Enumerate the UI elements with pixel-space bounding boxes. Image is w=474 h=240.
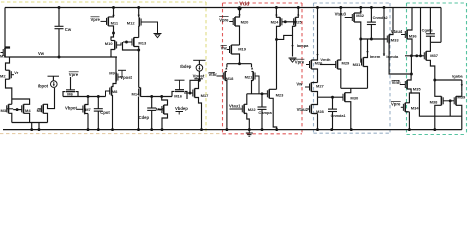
svg-text:M32: M32 [356, 13, 365, 18]
wire M24-M25 gate tie [282, 21, 294, 23]
wire M29-M30-M31 node [341, 87, 368, 89]
svg-text:Ibpot: Ibpot [38, 83, 49, 88]
node dots on Vdd rail [58, 6, 61, 9]
transistor M16 with flag [175, 79, 185, 81]
svg-text:M36: M36 [409, 34, 418, 39]
svg-text:M17: M17 [201, 93, 210, 98]
svg-text:M9: M9 [109, 70, 115, 75]
wire Cgate to corner [430, 41, 441, 43]
svg-text:Igaba: Igaba [452, 73, 463, 78]
svg-text:Cnmda1: Cnmda1 [331, 114, 346, 118]
svg-text:Vpre: Vpre [295, 59, 305, 64]
svg-text:M1: M1 [0, 53, 6, 58]
wire M21-M23 gate bus [247, 93, 268, 95]
svg-text:Iampa: Iampa [297, 43, 309, 48]
capacitor Cnmda2 [370, 8, 372, 23]
ground symbol below Iampa [289, 57, 297, 59]
svg-text:M12: M12 [127, 20, 136, 25]
node M11 drain junction [112, 32, 115, 35]
dashed boundary: W-circuit block (yellow) [1, 1, 206, 3]
node dots on ground rail [30, 128, 33, 131]
svg-text:Vpre: Vpre [69, 72, 79, 77]
transistor M12 [138, 8, 140, 18]
current label Iampa [292, 35, 294, 56]
svg-text:M25: M25 [294, 19, 303, 24]
svg-text:Vtau1: Vtau1 [229, 104, 241, 109]
svg-text:M38: M38 [430, 99, 439, 104]
wire bottom-right corner rise [461, 116, 463, 129]
svg-text:M6: M6 [67, 92, 73, 97]
svg-text:M16: M16 [174, 94, 183, 99]
svg-text:Cgate: Cgate [422, 27, 434, 32]
capacitor Cpot [97, 97, 99, 109]
wire M27-M28-M30 node [318, 96, 344, 98]
transistor M31 [361, 59, 363, 66]
svg-text:Vtau2: Vtau2 [297, 107, 309, 112]
capacitor Campa [261, 94, 263, 107]
svg-text:M3: M3 [1, 108, 7, 113]
svg-text:M2: M2 [0, 74, 6, 79]
wire M13 diode tie [123, 42, 139, 50]
svg-text:M33: M33 [391, 37, 400, 42]
svg-text:Vw: Vw [38, 51, 45, 56]
transistor M15 [161, 106, 163, 113]
svg-text:Vinh: Vinh [392, 80, 401, 85]
svg-text:M34: M34 [411, 105, 420, 110]
wire M38-M39 gate drop [449, 101, 451, 116]
svg-text:Vbdep: Vbdep [175, 106, 188, 111]
svg-text:M27: M27 [316, 83, 325, 88]
svg-text:M22: M22 [248, 107, 257, 112]
transistor M5 [40, 105, 42, 112]
capacitor Cw [58, 8, 60, 27]
svg-text:Cw: Cw [65, 27, 72, 32]
dashed boundary: Vdd/amplifier block (red) [223, 2, 303, 4]
transistor M14 [138, 89, 140, 96]
wire gate bus to M33 [361, 38, 388, 40]
svg-text:M15: M15 [156, 107, 165, 112]
transistor M25 [293, 18, 295, 25]
transistor M17 [190, 80, 199, 93]
transistor M2 [6, 57, 10, 70]
svg-text:Vpre: Vpre [391, 102, 401, 107]
transistor M38 [442, 97, 444, 104]
wire Vbpot node bus [63, 96, 106, 98]
svg-text:Vw: Vw [221, 46, 228, 51]
wire M32 to M31 gate [360, 39, 363, 62]
svg-text:Vw: Vw [296, 81, 303, 86]
ground symbol at M12 gate [154, 33, 162, 35]
svg-text:M23: M23 [276, 92, 285, 97]
svg-text:M13: M13 [138, 41, 147, 46]
transistor M36 [401, 34, 405, 36]
transistor M29 [335, 61, 337, 68]
wire rail drop to gate bus [420, 8, 422, 56]
svg-text:M4: M4 [25, 108, 31, 113]
transistor M9 [117, 74, 119, 81]
transistor M21 [251, 64, 253, 68]
wire Vmth gate tie [320, 64, 336, 66]
svg-text:Vpost: Vpost [193, 73, 205, 78]
svg-text:Vmth: Vmth [320, 57, 331, 62]
transistor M18 [226, 64, 228, 68]
svg-text:Vpre: Vpre [91, 17, 101, 22]
transistor M24 [281, 18, 283, 25]
wire post-synapse bus [147, 96, 173, 98]
dashed boundary: output block (teal) [407, 2, 467, 4]
wire M35 branch to output [411, 93, 435, 116]
svg-text:Vdd: Vdd [239, 2, 249, 8]
svg-text:M31: M31 [353, 62, 362, 67]
svg-text:M8: M8 [112, 89, 118, 94]
svg-text:Campa: Campa [258, 110, 272, 115]
wire M13 to M14 [138, 50, 140, 88]
svg-text:Vtau4: Vtau4 [391, 29, 403, 34]
transistor M33 [386, 36, 388, 43]
transistor M10 [111, 33, 114, 41]
svg-text:M20: M20 [241, 19, 250, 24]
transistor M1 [2, 49, 4, 56]
svg-text:Vbpot: Vbpot [65, 105, 77, 110]
current source Ibpot [48, 75, 60, 77]
svg-text:M30: M30 [350, 95, 359, 100]
svg-text:Vpost: Vpost [120, 75, 132, 80]
dashed boundary bottom (tan) [0, 133, 222, 135]
svg-text:Vtau3: Vtau3 [335, 12, 347, 17]
wire top-right corner drop [440, 8, 442, 43]
wire M35 drain node [410, 56, 412, 74]
wire M3-M4 gate tie [13, 109, 22, 111]
transistor M4 [21, 105, 23, 112]
capacitor Cdep [151, 97, 153, 109]
wire left supply drop [4, 8, 6, 50]
svg-text:M28: M28 [316, 109, 325, 114]
svg-text:M11: M11 [111, 20, 119, 25]
svg-text:Vpre: Vpre [219, 18, 229, 23]
wire Vw rail [10, 56, 118, 58]
svg-text:M5: M5 [37, 108, 43, 113]
ground symbol below M22 [248, 130, 250, 133]
current source Ibdep [193, 59, 205, 61]
svg-text:Cnmda2: Cnmda2 [373, 16, 388, 20]
node M37-M38 junction [433, 79, 436, 82]
wire ground bottom rail [3, 129, 462, 131]
svg-text:M29: M29 [342, 61, 351, 66]
svg-text:Cdep: Cdep [139, 115, 150, 120]
node Vdd big junction [237, 6, 241, 10]
wire output source bus [435, 115, 462, 117]
node flag Vpost [118, 69, 126, 71]
transistor M39 [453, 97, 455, 104]
svg-text:Cpot: Cpot [100, 110, 110, 115]
wire Inmda branch [383, 8, 385, 57]
transistor M13 [131, 39, 133, 46]
node Vw-Cw junction [58, 56, 61, 59]
svg-text:M24: M24 [271, 19, 280, 24]
svg-text:M39: M39 [457, 94, 466, 99]
svg-text:Vr: Vr [14, 70, 18, 75]
wire source bus of M3 M4 M5 [12, 122, 48, 124]
transistor M37 [423, 52, 425, 59]
svg-text:Inmda: Inmda [386, 54, 399, 59]
svg-text:M21: M21 [245, 75, 254, 80]
svg-text:M18: M18 [226, 76, 235, 81]
transistor M30 [342, 94, 344, 101]
wire M37 gate bus [405, 55, 424, 57]
dashed boundary: nmda block (blue) [314, 2, 391, 4]
svg-text:M14: M14 [132, 92, 141, 97]
svg-text:M37: M37 [430, 53, 439, 58]
current label Imem [366, 51, 368, 53]
current label Inmda [383, 54, 385, 56]
transistor M3 [6, 105, 8, 112]
wire gaba top bus [435, 79, 462, 81]
capacitor Cgate [429, 8, 431, 34]
svg-text:M10: M10 [105, 41, 114, 46]
node M13 drain [137, 49, 140, 52]
svg-text:M7: M7 [85, 107, 91, 112]
wire mid node bus [227, 63, 252, 65]
capacitor Cnmda1 [332, 97, 334, 109]
svg-text:Ibdep: Ibdep [180, 64, 192, 69]
svg-text:Imem: Imem [370, 54, 381, 59]
node Ibdep-M17 junction [198, 79, 201, 82]
node amplifier mid junction [238, 62, 241, 65]
transistor M8 [109, 88, 111, 95]
svg-text:M19: M19 [238, 47, 247, 52]
wire Vdd top rail [5, 7, 441, 9]
transistor M23 [266, 90, 268, 97]
svg-text:M35: M35 [413, 86, 422, 91]
